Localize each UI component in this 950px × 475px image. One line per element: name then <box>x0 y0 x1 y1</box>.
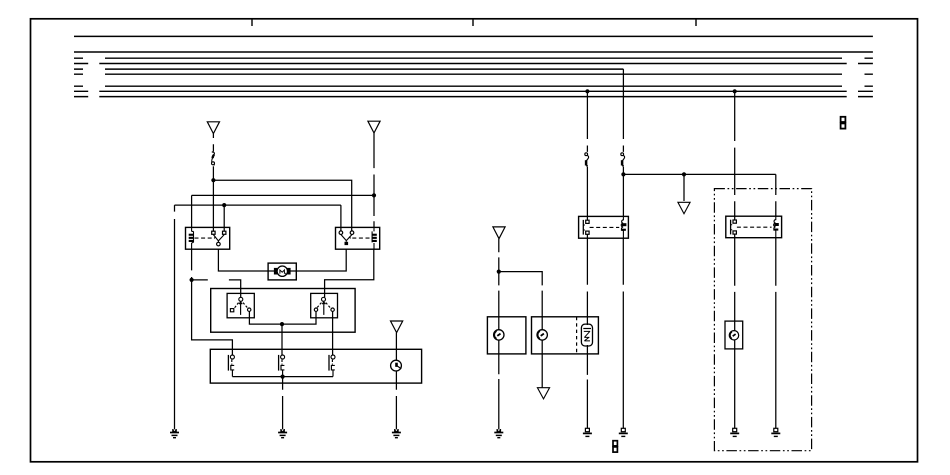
wire triangle D to washer motor and ground G4 <box>498 239 500 429</box>
relay K1 box <box>186 227 230 249</box>
wire node C to relay K1 terminal <box>223 205 225 231</box>
bus line 7 <box>74 85 873 87</box>
relay K1 switch terminals <box>212 231 226 234</box>
relay K3 dashed link <box>590 226 620 228</box>
ground G3 <box>392 429 401 438</box>
connector C2 <box>613 441 617 452</box>
relay K4 box <box>726 216 782 238</box>
bus line 4 <box>74 63 873 65</box>
wire relay K3 coil to ground G6 <box>622 238 624 428</box>
wire node A to relay K2 contact <box>213 180 351 231</box>
wire K2 coil to switch S1b <box>325 249 374 297</box>
wire triangle B to relay K1 coil line <box>373 133 375 227</box>
relay K4 dashed link <box>737 226 772 228</box>
switch S2b <box>279 355 285 377</box>
node G dot <box>497 270 501 274</box>
relay K4 switch <box>731 220 737 235</box>
node B dot on triangle B wire <box>372 193 376 197</box>
rear washer box dashed divider <box>576 317 578 354</box>
bus line 3 <box>74 57 873 59</box>
wire node E to switch S2b <box>281 324 283 355</box>
bus line 2 <box>74 51 873 53</box>
power feed triangle B <box>368 121 380 133</box>
washer level sensor capsule <box>581 324 592 346</box>
relay K3 box <box>579 216 629 238</box>
wiper motor switch assembly box <box>211 289 355 333</box>
node H dot (bus tap fuse F1) <box>585 89 589 93</box>
wire node G to rear washer motor <box>499 272 542 388</box>
wire node I to relay K4 coil (feed line) <box>623 173 775 175</box>
relay K1 coil <box>189 227 194 249</box>
ground G8 <box>771 428 780 436</box>
wire triangle C through lamp to ground G3 <box>395 333 397 429</box>
wire bus to relay K4 switch <box>734 91 736 220</box>
front washer motor box <box>487 317 526 354</box>
node I dot <box>621 172 625 176</box>
front washer motor <box>494 330 504 340</box>
wire node J to sink triangle F <box>683 174 685 201</box>
relay K2 box <box>336 227 380 249</box>
relay K2 coil <box>372 227 377 249</box>
wire K1 coil to wiper switch (dashed drop) <box>192 249 233 355</box>
wire S1b contact to switch S2c <box>332 311 334 355</box>
power bus rails <box>74 36 873 96</box>
ground G1 <box>170 429 179 438</box>
wire node A down to relay K1 contact <box>212 180 214 231</box>
sub-switch S1b box <box>311 293 338 317</box>
switch S2a <box>228 355 234 377</box>
node A dot <box>211 178 215 182</box>
power feed triangle C (illumination) <box>391 321 403 333</box>
sink triangle F <box>678 202 690 213</box>
node J dot <box>682 172 686 176</box>
connector C1 <box>841 117 846 129</box>
wire bus line5 to fuse F2 <box>622 69 624 152</box>
fuse F1 <box>585 153 589 166</box>
wire from triangle A <box>212 134 214 152</box>
ground G5 <box>583 428 592 436</box>
node D dot <box>190 278 194 282</box>
wire relay K3 switch to washer level sensor <box>586 234 588 428</box>
sub-switch S1a <box>230 297 251 315</box>
ground G4 <box>494 429 503 438</box>
node F dot <box>281 375 285 379</box>
relay K4 coil <box>773 216 779 237</box>
circuit breaker CB1 <box>212 152 215 165</box>
rear wiper motor <box>729 331 738 340</box>
relay K2 coil-arm dashed link <box>350 237 369 239</box>
wire relay K4 coil to ground G8 <box>775 238 777 429</box>
bus line 1 <box>74 35 873 37</box>
node E dot <box>280 322 284 326</box>
wire node F to ground G2 <box>282 377 284 429</box>
relay K1 switch arm <box>213 235 224 246</box>
sink triangle E (rear washer) <box>537 388 549 399</box>
fuse F2 <box>621 153 625 166</box>
motor M1 box <box>268 263 296 280</box>
wiper/washer switch box <box>210 349 421 383</box>
bus line 9 <box>74 96 873 98</box>
switch common wire <box>232 376 333 378</box>
rear wiper motor box <box>725 321 743 349</box>
relay K3 switch <box>583 220 589 235</box>
power feed triangle A (left) <box>207 122 219 134</box>
bus line 5 <box>74 68 623 70</box>
sub-switch S1b <box>314 297 334 315</box>
rear wiper unit dash-dot outline <box>714 189 811 451</box>
ground G7 <box>730 428 739 436</box>
rear washer box <box>532 317 599 354</box>
relay K1 coil-arm dashed link <box>195 237 215 239</box>
ground G6 <box>619 428 628 436</box>
wire ground branch to relay K2 contact <box>175 205 341 231</box>
node K dot (bus tap rear wiper) <box>733 89 737 93</box>
wire CB1 to node <box>212 166 214 180</box>
rear washer motor <box>537 330 547 340</box>
relay K2 switch terminals <box>339 231 354 235</box>
wire node I down to relay K3 coil <box>622 174 624 216</box>
motor M1 <box>274 266 291 276</box>
illumination lamp L1 <box>391 360 402 371</box>
bus line 6 <box>74 73 873 75</box>
wire feed line to relay K4 coil <box>775 174 777 216</box>
wire relay K1 coil to node B <box>192 195 374 227</box>
node C dot <box>222 203 226 207</box>
wire relay K4 switch to rear wiper motor <box>734 234 736 428</box>
ground G2 <box>278 429 287 438</box>
bus line 8 <box>74 90 873 92</box>
wire to ground G1 (dashed) <box>174 205 176 429</box>
switch S2c <box>329 355 335 377</box>
wire K1 common to K2 common through motor <box>218 249 346 271</box>
wire fuse F2 to node I <box>622 167 624 175</box>
dashed jumper node D to switch S1a <box>192 280 241 297</box>
relay K3 coil <box>621 216 627 238</box>
wire S1a contact to S1b contact <box>249 311 316 324</box>
power feed triangle D (washer) <box>493 227 505 239</box>
wire bus to fuse F1 <box>586 91 588 152</box>
wire fuse F1 to relay K3 switch <box>586 167 588 221</box>
relay K2 switch arm <box>341 235 352 246</box>
sub-switch S1a box <box>227 293 254 317</box>
